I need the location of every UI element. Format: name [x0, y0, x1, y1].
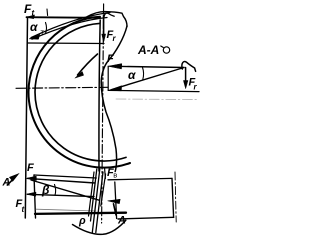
svg-text:F: F — [27, 162, 34, 174]
workpiece left block top edge — [34, 175, 96, 178]
svg-text:t: t — [22, 205, 25, 214]
svg-text:A-A: A-A — [137, 43, 159, 57]
rotation direction arrow inside blade — [78, 54, 98, 75]
beta diagonal (resultant direction) — [31, 180, 100, 200]
A-A section label — [137, 43, 159, 57]
tooth top outline — [87, 12, 127, 27]
section profile left edge — [99, 20, 100, 171]
node beta label — [41, 183, 50, 197]
node F label (A-A view) — [107, 53, 114, 65]
vertical centerline (dash-dot) — [102, 4, 104, 223]
blade kerf hatch lines — [89, 172, 95, 216]
blade outer arc (front view circle) — [28, 17, 130, 168]
node Fr arrow (top, at tooth) — [103, 15, 105, 40]
workpiece right block top edge — [108, 178, 172, 179]
triangle left edge — [107, 66, 109, 90]
svg-text:t: t — [32, 9, 35, 18]
Fr arrow (A-A, vertical) — [185, 68, 187, 87]
svg-text:в: в — [113, 171, 117, 180]
svg-text:α: α — [30, 20, 38, 34]
wire: horizontal line y=43 — [28, 42, 104, 45]
node tick below Ft label — [46, 9, 49, 16]
blade rim arc (bottom view) — [73, 220, 126, 234]
Ft force arrow (bottom view) — [28, 194, 95, 196]
Fv leader tick — [104, 169, 107, 179]
right block left edge — [115, 182, 117, 219]
wire: wedge arrow line 1 (rake) — [31, 13, 110, 38]
horizontal centerline (dash-dot) — [16, 87, 108, 88]
wire: wedge arrow line 2 — [32, 18, 107, 40]
section arrow A (at kerf) — [114, 204, 117, 215]
node rho label (bottom) — [78, 215, 86, 227]
right block bottom edge — [118, 217, 174, 219]
svg-text:F: F — [107, 53, 114, 65]
svg-text:r: r — [113, 34, 117, 43]
section arrow A (left end) — [7, 178, 14, 185]
svg-text:α: α — [128, 68, 136, 82]
section profile right edge — [101, 26, 127, 172]
resultant diagonal with arrowhead — [111, 68, 184, 90]
node Ft label (top left) — [24, 2, 35, 18]
beta angle arc — [55, 185, 56, 196]
svg-text:A: A — [2, 177, 11, 189]
node alpha_t angle arc — [46, 23, 47, 34]
workpiece left edge — [34, 175, 36, 218]
wire: left vertical tangent line — [25, 17, 27, 218]
blade inner arc — [35, 23, 126, 161]
dash-dot line right end — [175, 172, 176, 222]
wire: top tangent line force Ft — [27, 16, 101, 19]
vertex curl (tooth at A-A vertex) — [182, 61, 196, 71]
F force arrow (A-A, horizontal) — [110, 66, 184, 67]
svg-text:ρ: ρ — [78, 215, 86, 227]
workpiece left block bottom edge — [35, 213, 126, 214]
alpha angle arc — [143, 68, 144, 80]
node alpha label (A-A) — [128, 68, 136, 82]
tooth tip hook — [104, 13, 114, 17]
node wedge arrowhead — [29, 35, 40, 40]
rotated-view symbol after A-A — [163, 47, 169, 53]
right block right edge — [172, 178, 174, 217]
node alpha_t label — [30, 20, 45, 37]
F force arrow (bottom view) — [28, 178, 96, 183]
triangle bottom line — [108, 90, 199, 91]
svg-text:r: r — [194, 83, 198, 92]
node F label (bottom view) — [27, 162, 34, 174]
node Fv label — [107, 167, 117, 180]
